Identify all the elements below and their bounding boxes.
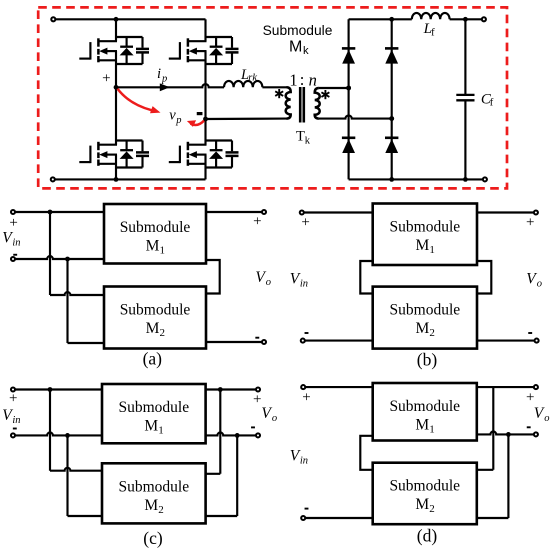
- left leg rail segments: [115, 19, 117, 41]
- svg-text:Submodule: Submodule: [390, 302, 461, 319]
- terminal in+: [11, 387, 15, 391]
- wire in+: [15, 211, 104, 213]
- svg-text:M: M: [146, 320, 160, 337]
- node: secondary bottom on right rail: [389, 116, 394, 121]
- label - out: [251, 426, 255, 428]
- svg-text:V: V: [261, 405, 272, 422]
- wire out- with hop: [206, 433, 256, 436]
- wire branch M2 out+: [219, 390, 221, 474]
- svg-text:M: M: [144, 497, 158, 514]
- diode D1: [342, 48, 355, 63]
- svg-text:(a): (a): [143, 348, 163, 368]
- terminal out-: [262, 340, 266, 344]
- node: bottom bus right rail: [389, 177, 394, 182]
- wire series link input M1 to M2: [360, 261, 372, 294]
- node in+ branch: [48, 387, 53, 392]
- svg-text:+: +: [526, 215, 534, 231]
- label - out: [527, 426, 531, 428]
- svg-text:M: M: [415, 417, 429, 434]
- wire out-: [477, 431, 534, 434]
- right leg rail segments: [204, 19, 206, 41]
- inductor Lrk: [224, 81, 262, 87]
- svg-text:V: V: [526, 271, 537, 288]
- capacitor Cf plates: [456, 94, 474, 96]
- diode D3: [385, 48, 398, 63]
- node: primary + junction on left leg: [114, 85, 119, 90]
- svg-text:f: f: [431, 26, 435, 38]
- node: primary - junction on right leg: [203, 117, 208, 122]
- output terminal + (top right): [482, 17, 486, 21]
- svg-text:i: i: [157, 66, 161, 82]
- node in- branch: [65, 257, 70, 262]
- label - out: [255, 337, 259, 339]
- svg-text:Submodule: Submodule: [118, 478, 189, 495]
- terminal in+: [11, 210, 15, 214]
- svg-text:1: 1: [429, 244, 435, 256]
- red arrow vp to -: [191, 121, 205, 125]
- node: top bus left-leg junction: [114, 17, 119, 22]
- svg-text:p: p: [175, 115, 181, 126]
- svg-text:in: in: [300, 279, 308, 290]
- wire: primary top with ip arrow, hop over right leg: [116, 84, 224, 87]
- node: top bus right rail: [389, 17, 394, 22]
- svg-text:p: p: [161, 73, 167, 84]
- rectifier left rail: [348, 19, 350, 179]
- svg-text:M: M: [146, 238, 160, 255]
- node: filter cap top: [463, 17, 468, 22]
- wire in- with hop: [15, 433, 102, 436]
- svg-text:+: +: [302, 390, 310, 406]
- svg-text:(b): (b): [417, 349, 438, 369]
- node: bottom bus left-leg junction: [114, 177, 119, 182]
- svg-text:(d): (d): [417, 526, 438, 546]
- svg-text:M: M: [144, 418, 158, 435]
- inductor Lf: [412, 13, 450, 19]
- terminal out+: [256, 387, 260, 391]
- rectifier top bus: [349, 18, 412, 20]
- svg-text:1: 1: [289, 70, 297, 89]
- svg-text:Submodule: Submodule: [120, 219, 191, 236]
- svg-text:rk: rk: [248, 73, 257, 84]
- svg-text:1: 1: [429, 424, 435, 436]
- rectifier bottom bus: [349, 178, 466, 180]
- svg-text:Submodule: Submodule: [389, 478, 460, 495]
- svg-text:f: f: [490, 97, 494, 109]
- wire out+: [477, 386, 534, 388]
- wire: bottom bus to output - terminal: [465, 178, 482, 180]
- svg-text:T: T: [296, 129, 305, 145]
- wire out+: [206, 211, 262, 213]
- wire series link output M1 to M2: [477, 261, 491, 294]
- wire branch M2 out-: [507, 434, 509, 518]
- transformer Tk primary winding: [286, 87, 291, 118]
- svg-text:1: 1: [160, 245, 166, 257]
- wire branch to M2 + with hop: [49, 390, 51, 471]
- svg-text:k: k: [303, 45, 309, 57]
- svg-text:(c): (c): [143, 528, 163, 548]
- label - in: [13, 254, 17, 256]
- submodule box M2 (a): [104, 287, 206, 349]
- label - in: [13, 428, 17, 430]
- wire branch to M2 -: [66, 259, 68, 343]
- wire: secondary bottom, hop over left rail, to right rail: [319, 115, 392, 118]
- transistor S1 (MOSFET with body diode and snubber cap): [79, 37, 149, 64]
- re-add dots over wires: [346, 86, 351, 91]
- svg-text:o: o: [272, 413, 277, 424]
- svg-text:o: o: [537, 279, 542, 290]
- wire out-: [477, 340, 535, 342]
- node out+ branch: [218, 387, 223, 392]
- terminal in-: [11, 257, 15, 261]
- node out- branch: [506, 432, 511, 437]
- node out- branch: [235, 433, 240, 438]
- wire series link input: [360, 436, 372, 470]
- svg-text:2: 2: [158, 504, 164, 516]
- wire: Lrk to transformer primary: [262, 86, 286, 88]
- submodule box M1 (b): [373, 204, 477, 266]
- label - in: [305, 508, 309, 510]
- wire branch to M2 -: [66, 435, 68, 516]
- wire branch M2 out-: [236, 435, 238, 516]
- node in+ branch: [48, 210, 53, 215]
- node: secondary top on left rail: [346, 86, 351, 91]
- submodule box M1 (d): [373, 383, 477, 441]
- wire out-: [206, 341, 262, 343]
- svg-text:Submodule: Submodule: [118, 399, 189, 416]
- wire: primary bottom: [206, 118, 287, 121]
- svg-text::: :: [300, 70, 305, 89]
- wire in- with hop: [15, 256, 104, 259]
- wire out+: [206, 388, 256, 390]
- svg-text:V: V: [255, 269, 266, 286]
- svg-text:M: M: [415, 496, 429, 513]
- rectifier right rail: [391, 19, 393, 179]
- terminal out+: [534, 385, 538, 389]
- transistor S3 (MOSFET with body diode and snubber cap): [169, 37, 239, 64]
- svg-text:in: in: [12, 237, 20, 248]
- svg-text:n: n: [309, 70, 317, 89]
- input terminal bottom-left: [55, 178, 116, 180]
- svg-text:Submodule: Submodule: [120, 302, 191, 319]
- wire series link M1- to M2+: [206, 260, 220, 294]
- terminal out-: [534, 432, 538, 436]
- node: filter cap bottom: [463, 177, 468, 182]
- wire top bus to right leg: [116, 18, 206, 20]
- svg-text:in: in: [300, 456, 308, 467]
- submodule box M2 (b): [373, 287, 477, 349]
- terminal in-: [301, 516, 305, 520]
- wire in-: [305, 340, 373, 342]
- svg-text:o: o: [266, 277, 271, 288]
- terminal in-: [11, 433, 15, 437]
- terminal out-: [535, 339, 539, 343]
- wire in+: [304, 211, 373, 213]
- wire in+: [15, 388, 102, 390]
- input terminal top-left: [56, 18, 117, 20]
- capacitor Cf rail: [464, 19, 466, 94]
- svg-text:2: 2: [429, 327, 435, 339]
- wire branch to M2 + with hop: [49, 212, 51, 295]
- svg-text:Submodule: Submodule: [389, 398, 460, 415]
- svg-text:+: +: [253, 213, 261, 229]
- wire in-: [305, 517, 372, 519]
- polarity dot primary: [275, 89, 283, 98]
- terminal out-: [256, 433, 260, 437]
- terminal in+: [301, 385, 305, 389]
- svg-text:2: 2: [429, 503, 435, 515]
- svg-text:Submodule: Submodule: [263, 23, 333, 38]
- terminal out+: [262, 210, 266, 214]
- svg-text:k: k: [305, 135, 311, 146]
- wire out+: [477, 211, 534, 213]
- svg-text:M: M: [415, 237, 429, 254]
- transistor S4 (MOSFET with body diode and snubber cap): [169, 141, 239, 168]
- svg-text:2: 2: [160, 327, 166, 339]
- diode D4: [385, 138, 398, 153]
- svg-text:o: o: [544, 413, 549, 424]
- submodule box M1 (a): [104, 204, 206, 264]
- svg-text:+: +: [301, 215, 309, 231]
- node in- branch: [65, 433, 70, 438]
- svg-text:1: 1: [158, 425, 164, 437]
- wire branch M1+ to M2+ with hop: [492, 387, 494, 470]
- transformer core: [299, 87, 302, 123]
- wire: Lf to output + terminal: [450, 18, 482, 20]
- svg-text:M: M: [289, 38, 302, 55]
- red arrow vp from +: [118, 89, 152, 110]
- svg-text:M: M: [415, 320, 429, 337]
- svg-text:Submodule: Submodule: [390, 219, 461, 236]
- wire: secondary top to rectifier left rail: [319, 87, 349, 89]
- submodule box M1 (c): [102, 384, 206, 443]
- terminal out+: [534, 210, 538, 214]
- terminal in-: [301, 339, 305, 343]
- wire bottom bus to right leg: [116, 178, 206, 180]
- submodule box M2 (c): [102, 463, 206, 523]
- svg-text:+: +: [102, 70, 110, 86]
- svg-text:+: +: [253, 391, 261, 407]
- label - primary: [197, 112, 203, 115]
- label - out: [528, 332, 532, 334]
- svg-text:in: in: [12, 415, 20, 426]
- diode D2: [342, 138, 355, 153]
- polarity dot secondary: [321, 90, 329, 99]
- submodule box M2 (d): [373, 463, 477, 525]
- red dashed border of submodule Mk: [38, 7, 507, 188]
- svg-text:V: V: [534, 405, 545, 422]
- output terminal - (bottom right): [483, 177, 487, 181]
- label - in: [305, 332, 309, 334]
- svg-text:+: +: [9, 390, 17, 406]
- transistor S2 (MOSFET with body diode and snubber cap): [79, 141, 149, 168]
- transformer Tk secondary winding: [315, 88, 320, 119]
- terminal in+: [300, 210, 304, 214]
- wire in+: [305, 386, 372, 388]
- svg-text:+: +: [526, 390, 534, 406]
